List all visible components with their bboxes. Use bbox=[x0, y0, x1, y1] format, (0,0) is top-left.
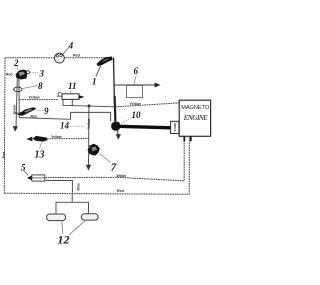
svg-text:Yellow: Yellow bbox=[29, 96, 40, 100]
wire from connector 5 down to horn pads 12 (Blue) bbox=[46, 181, 73, 193]
connector 5 (plug with arrow) bbox=[27, 176, 32, 181]
thick battery cable from junction 10 to starter terminal bbox=[118, 126, 171, 128]
key switch component 2 bbox=[16, 70, 29, 80]
leader for label 7 bbox=[100, 154, 111, 163]
wire top border (Red) bbox=[5, 57, 114, 59]
fuse holder 4 (circle on top wire) bbox=[55, 53, 65, 63]
ring component 8 on wire pair bbox=[14, 87, 22, 92]
wire White: from connector 5 to engine bbox=[46, 136, 185, 181]
svg-text:Red: Red bbox=[15, 111, 21, 115]
junction node dot bbox=[88, 105, 91, 108]
starter terminal box (S) bbox=[171, 121, 179, 133]
arrowhead left of wire 13 bbox=[26, 137, 32, 142]
svg-text:ENGINE: ENGINE bbox=[183, 113, 208, 122]
svg-text:Red: Red bbox=[117, 189, 124, 193]
wire from switch 11 pins to main vertical bbox=[63, 100, 115, 107]
svg-text:12: 12 bbox=[58, 233, 70, 247]
leader for label 10 bbox=[122, 118, 132, 124]
svg-text:Blue: Blue bbox=[77, 183, 81, 190]
wire main vertical from top border to junction 10 bbox=[114, 58, 116, 122]
engine terminal stub left bbox=[183, 136, 185, 141]
leader for label 2 bbox=[16, 66, 19, 70]
svg-text:13: 13 bbox=[35, 150, 45, 161]
svg-text:2: 2 bbox=[13, 58, 19, 68]
arrowhead bottom of yellow vertical bbox=[86, 165, 91, 171]
leader for label 5 bbox=[24, 171, 28, 176]
component 13 connector body bbox=[33, 136, 48, 142]
wire right vertical (Red) to engine bbox=[188, 136, 190, 194]
svg-text:White: White bbox=[117, 174, 127, 178]
svg-text:3: 3 bbox=[39, 68, 45, 78]
leader for label 14 bbox=[67, 125, 85, 127]
wire from connector 9 up-over to junction 10 bbox=[19, 112, 110, 121]
leader for label 11 bbox=[70, 90, 71, 94]
horn pad left bbox=[47, 214, 66, 221]
terminal ring of switch (points to 3) bbox=[27, 71, 30, 74]
component 6 pocket box bbox=[127, 86, 143, 98]
svg-text:MAGNETO: MAGNETO bbox=[181, 105, 210, 111]
clip left of 11 bbox=[58, 93, 61, 97]
svg-text:7: 7 bbox=[111, 162, 117, 174]
arrowhead of wire 6 bbox=[155, 83, 161, 88]
svg-text:Red: Red bbox=[2, 152, 6, 159]
wire Yellow from left pair to switch 11 bbox=[20, 99, 59, 101]
leader for label 13 bbox=[40, 143, 42, 149]
component 7 (wire joint cluster) bbox=[89, 144, 100, 156]
leader for label 4 bbox=[63, 47, 69, 54]
wire Yellow vertical down to arrow bbox=[88, 106, 90, 167]
svg-text:9: 9 bbox=[44, 106, 49, 116]
engine terminal stub right bbox=[190, 136, 192, 141]
svg-text:8: 8 bbox=[38, 81, 43, 91]
svg-text:1: 1 bbox=[92, 76, 97, 86]
svg-text:5: 5 bbox=[21, 163, 26, 173]
pin of connector 1 bbox=[96, 66, 101, 77]
svg-text:Yellow: Yellow bbox=[87, 118, 91, 129]
horn pads 12: bracket bbox=[56, 202, 89, 214]
svg-text:Red: Red bbox=[6, 73, 12, 77]
svg-text:Red: Red bbox=[73, 53, 80, 57]
leader for label 8 bbox=[22, 86, 37, 89]
connector tab right of 11 bbox=[79, 95, 84, 98]
svg-text:11: 11 bbox=[68, 81, 77, 91]
svg-text:14: 14 bbox=[60, 121, 70, 131]
leader for label 3 bbox=[30, 71, 39, 74]
junction 10 (black blob) bbox=[111, 122, 120, 131]
svg-text:START: START bbox=[173, 122, 177, 131]
engine box bbox=[179, 100, 210, 136]
svg-text:Red: Red bbox=[31, 114, 37, 118]
wire branch to arrow 6 bbox=[114, 84, 156, 86]
wire pair below key switch 2 bbox=[16, 79, 17, 128]
switch component 11 bbox=[62, 94, 79, 100]
svg-text:Yellow: Yellow bbox=[130, 102, 141, 106]
switch 11 second pin bbox=[71, 100, 73, 106]
wire Yellow horizontal with arrow 13 bbox=[30, 138, 89, 140]
arrow below junction 10 bbox=[117, 131, 120, 136]
connector 1 (black spade at top corner) bbox=[97, 57, 113, 67]
svg-text:4: 4 bbox=[68, 40, 74, 50]
svg-text:Yellow: Yellow bbox=[51, 135, 62, 139]
leader for label 6 bbox=[134, 75, 136, 85]
horn pad right bbox=[81, 214, 98, 220]
wire Yellow from main vertical to engine bbox=[116, 103, 180, 107]
svg-text:6: 6 bbox=[134, 66, 139, 76]
horn pads 12: stem bbox=[71, 194, 73, 203]
wire bottom border (Red) bbox=[4, 193, 189, 194]
svg-text:10: 10 bbox=[132, 110, 142, 120]
leader for label 12 (left) bbox=[61, 222, 64, 234]
connector 9 (black spade) bbox=[17, 107, 37, 116]
arrowhead green wire end bbox=[13, 126, 18, 132]
leader for label 9 bbox=[37, 109, 44, 111]
wire left border (Red) bbox=[3, 58, 6, 193]
leader for label 12 (right) bbox=[70, 221, 86, 235]
